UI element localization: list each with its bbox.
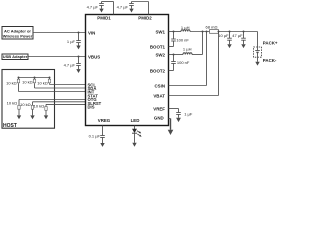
wire AC to VIN — [33, 32, 86, 34]
value 10k pull-down 2 — [20, 102, 31, 107]
battery cell symbol — [255, 47, 260, 57]
value 4.7uF PMID2 — [117, 4, 129, 9]
value 100nF boot1 — [176, 37, 189, 42]
wire sense to pack — [219, 31, 258, 33]
ground VREF cap — [176, 118, 181, 122]
svg-text:USB Adapter: USB Adapter — [3, 54, 28, 59]
wire BOOT1 — [169, 46, 174, 48]
value L1 1uH — [181, 25, 190, 30]
wire GND pin — [169, 119, 171, 130]
wire SDA — [35, 87, 86, 89]
capacitor 0.1uF VREG — [100, 136, 105, 144]
pin PMID1 wire — [102, 2, 114, 15]
capacitor 100nF boot2 — [171, 55, 176, 71]
node cap 10uF — [229, 31, 231, 33]
IC U1 charger — [86, 15, 169, 126]
svg-text:VREF: VREF — [153, 107, 165, 112]
resistor 10k pull-down 1 — [18, 100, 20, 116]
value L2 1uH — [183, 46, 192, 51]
ground VIN cap — [76, 46, 80, 50]
node cap 47uF — [243, 31, 245, 33]
pin labels top — [97, 16, 152, 21]
ground 47uF — [241, 44, 245, 48]
ground pull-down 1 — [17, 115, 21, 119]
wire LED pin — [134, 126, 136, 130]
svg-text:1 µF: 1 µF — [67, 39, 76, 44]
svg-text:4.7 µF: 4.7 µF — [64, 62, 76, 67]
wire VREG — [102, 126, 104, 136]
svg-text:100 nF: 100 nF — [176, 37, 189, 42]
wire VBAT — [169, 32, 219, 96]
node VBAT tap — [218, 31, 220, 33]
svg-text:CSIN: CSIN — [155, 84, 166, 89]
battery pack dashed box — [254, 47, 262, 57]
svg-text:PACK-: PACK- — [263, 58, 277, 63]
wire SLRST — [33, 101, 86, 103]
resistor 10k pull-up 3 — [48, 78, 50, 85]
svg-text:10 kΩ: 10 kΩ — [22, 80, 33, 85]
svg-text:10 kΩ: 10 kΩ — [34, 103, 45, 108]
ground VBUS cap — [76, 69, 80, 73]
ground pull-down 2 — [30, 115, 34, 119]
wire L2 to phase join — [192, 32, 203, 55]
value 1uF VREF — [184, 112, 193, 117]
svg-text:PMID1: PMID1 — [97, 16, 111, 21]
LED D1 — [132, 129, 137, 143]
junction rail C — [49, 77, 51, 79]
node PACK- — [263, 58, 277, 63]
ground PMID2 cap — [129, 9, 133, 13]
svg-text:VBAT: VBAT — [153, 94, 165, 99]
resistor 10k pull-down 3 — [45, 104, 47, 115]
svg-text:68 mΩ: 68 mΩ — [206, 25, 218, 30]
inductor L1 1uH — [181, 30, 190, 32]
svg-text:10 kΩ: 10 kΩ — [7, 101, 18, 106]
HOST box — [2, 70, 55, 129]
svg-text:100 nF: 100 nF — [177, 60, 190, 65]
pin PMID2 wire — [132, 2, 149, 15]
value 1uF — [67, 39, 76, 44]
pin labels right column — [150, 30, 166, 121]
ground 10uF — [227, 44, 231, 48]
value 10k pull-down 1 — [7, 101, 18, 106]
USB adapter source box — [2, 54, 28, 60]
wire pack minus — [257, 57, 259, 62]
wire down to battery pack — [257, 32, 259, 48]
node phase2 join — [202, 31, 204, 33]
svg-text:10 µF: 10 µF — [218, 33, 229, 38]
svg-text:DIS: DIS — [88, 105, 95, 110]
svg-text:47 µF: 47 µF — [232, 33, 243, 38]
svg-text:4.7 µF: 4.7 µF — [87, 4, 99, 9]
AC adapter source box — [2, 27, 33, 40]
ground pack — [255, 62, 259, 66]
ground LED — [132, 143, 136, 147]
svg-text:SW2: SW2 — [155, 53, 165, 58]
svg-text:VBUS: VBUS — [88, 55, 100, 60]
capacitor 100nF boot1 — [171, 32, 176, 47]
value 68mohm — [206, 25, 218, 30]
svg-text:SW1: SW1 — [155, 30, 165, 35]
capacitor 4.7uF on PMID2 — [129, 2, 134, 9]
svg-text:10 kΩ: 10 kΩ — [20, 102, 31, 107]
HOST label — [3, 123, 17, 129]
svg-text:1 µH: 1 µH — [183, 46, 192, 51]
pin labels left column — [88, 31, 102, 110]
ground GND pin — [168, 130, 174, 135]
wire SW1 to inductor — [169, 31, 182, 33]
junction rail A — [18, 77, 20, 79]
wire INT — [19, 91, 86, 93]
pull-up rail — [19, 77, 50, 79]
wire DIS — [46, 103, 86, 105]
AC adapter label — [3, 28, 33, 38]
svg-text:VIN: VIN — [88, 31, 95, 36]
capacitor 4.7uF on PMID1 — [99, 2, 104, 9]
svg-text:10 kΩ: 10 kΩ — [6, 80, 17, 85]
svg-text:BOOT2: BOOT2 — [150, 69, 166, 74]
svg-text:0.1 µF: 0.1 µF — [89, 133, 101, 138]
node VIN bypass junction — [78, 32, 80, 34]
resistor 68mohm sense — [210, 30, 219, 34]
value 47uF — [232, 33, 243, 38]
wire CSIN — [169, 32, 207, 86]
pin labels bottom — [98, 118, 140, 123]
svg-text:10 kΩ: 10 kΩ — [37, 81, 48, 86]
ground PMID1 cap — [99, 9, 103, 13]
svg-text:PMID2: PMID2 — [138, 16, 152, 21]
value 10k pull-up 2 — [22, 80, 33, 85]
node CSIN tap — [206, 31, 208, 33]
value 0.1uF — [89, 133, 101, 138]
junction rail B — [34, 77, 36, 79]
resistor 10k pull-up 2 — [33, 78, 35, 89]
svg-text:Wireless Power: Wireless Power — [3, 33, 33, 38]
capacitor 4.7uF on VBUS — [76, 57, 81, 70]
ground pull-down 3 — [44, 115, 48, 119]
USB adapter label — [3, 54, 28, 59]
wire USB to VBUS — [28, 56, 86, 58]
wire VREF — [169, 108, 179, 110]
value 10k pull-up 1 — [6, 80, 17, 85]
capacitor 47uF output — [241, 32, 246, 45]
svg-text:BOOT1: BOOT1 — [150, 45, 166, 50]
node SW1 boot tap — [173, 31, 175, 33]
resistor 10k pull-down 2 — [31, 102, 33, 116]
ground VREG cap — [100, 143, 104, 147]
svg-text:PACK+: PACK+ — [263, 40, 278, 45]
capacitor 10uF output — [227, 32, 232, 45]
value 10uF — [218, 33, 229, 38]
svg-text:1 µF: 1 µF — [184, 112, 193, 117]
LED emission arrows — [137, 131, 142, 137]
resistor 10k pull-up 1 — [17, 78, 19, 92]
node VBUS bypass junction — [78, 56, 80, 58]
value 10k pull-up 3 — [37, 81, 48, 86]
svg-text:GND: GND — [154, 116, 164, 121]
capacitor 1uF on VIN — [76, 33, 81, 46]
value 4.7uF — [64, 62, 76, 67]
node SW2 boot tap — [173, 54, 175, 56]
capacitor 1uF VREF — [176, 109, 181, 118]
wire OTG — [19, 99, 86, 101]
node PACK+ — [263, 40, 278, 45]
inductor L2 1uH — [183, 53, 192, 55]
svg-text:4.7 µF: 4.7 µF — [117, 4, 129, 9]
svg-text:LED: LED — [131, 118, 140, 123]
value 10k pull-down 3 — [34, 103, 45, 108]
value 100nF boot2 — [177, 60, 190, 65]
svg-text:1 µH: 1 µH — [181, 25, 190, 30]
wire SCL — [50, 84, 86, 86]
wire L1 to sense resistor — [190, 31, 210, 33]
wire SW2 to inductor — [169, 54, 184, 56]
wire BOOT2 — [169, 70, 174, 72]
svg-text:VREG: VREG — [98, 118, 111, 123]
svg-text:HOST: HOST — [3, 123, 17, 129]
value 4.7uF PMID1 — [87, 4, 99, 9]
